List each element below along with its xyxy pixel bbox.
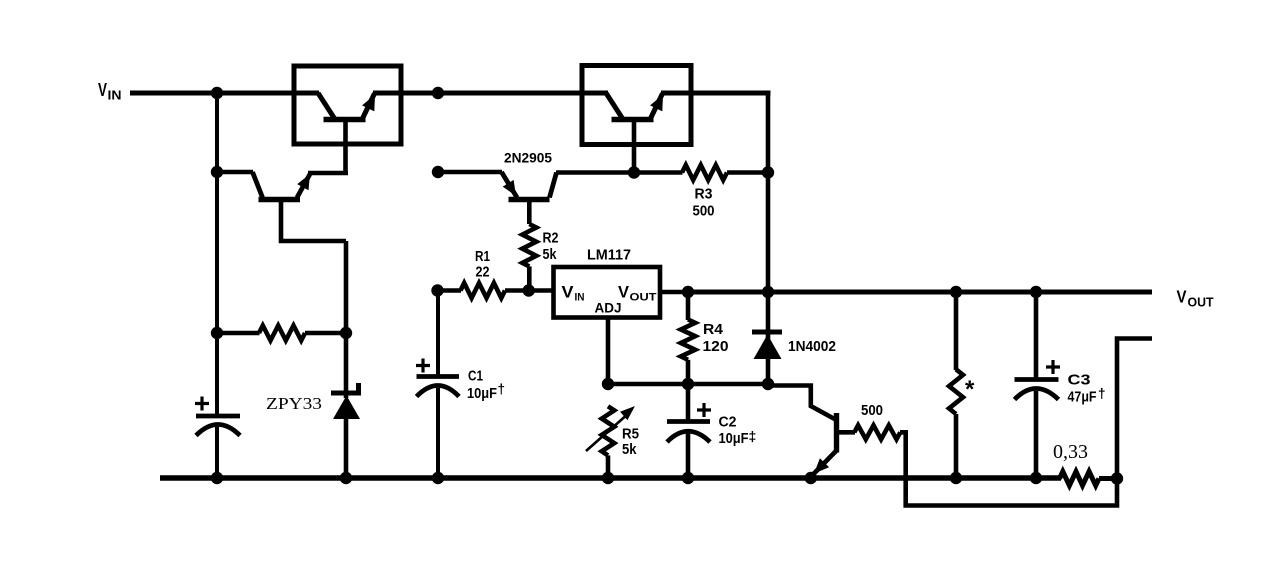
capacitor C2 plus sign bbox=[697, 403, 711, 417]
node junction rail x=346 bbox=[340, 472, 352, 484]
resistor (unlabeled, left) zigzag bbox=[259, 326, 305, 341]
svg-text:ZPY33: ZPY33 bbox=[266, 394, 322, 413]
node junction rail x=217 bbox=[211, 472, 223, 484]
node junction rail x=438 bbox=[432, 472, 444, 484]
wire U1 ADJ pin down bbox=[606, 317, 611, 384]
resistor R5 wiper arrowhead bbox=[620, 406, 635, 420]
wire zener bottom lead bbox=[344, 419, 349, 478]
transistor Q2 collector slant bbox=[606, 93, 623, 119]
svg-text:R5: R5 bbox=[622, 427, 639, 443]
capacitor input top plate bbox=[196, 414, 240, 419]
node junction x=217 zener row bbox=[211, 327, 223, 339]
transistor Q3 emitter arrow bbox=[297, 174, 310, 190]
zener D2 triangle bbox=[333, 396, 360, 420]
wire C3 top lead bbox=[1034, 292, 1039, 379]
transistor Q1 emitter arrow bbox=[362, 95, 375, 112]
node junction rail x=688 bbox=[682, 472, 694, 484]
transistor Q4 body bar bbox=[509, 197, 550, 202]
svg-text:OUT: OUT bbox=[1188, 296, 1214, 310]
svg-text:R4: R4 bbox=[703, 322, 723, 338]
node junction VIN/left branch bbox=[211, 87, 223, 99]
wire Q3 emitter to Q1 base (y=173) bbox=[308, 171, 348, 176]
svg-text:5k: 5k bbox=[622, 442, 637, 458]
svg-text:10μF: 10μF bbox=[719, 431, 749, 447]
wire input cap bottom lead bbox=[215, 427, 219, 478]
node junction R3 / x=768 vertical bbox=[762, 166, 774, 178]
wire * top lead bbox=[954, 292, 959, 370]
svg-text:R3: R3 bbox=[695, 187, 713, 203]
svg-text:1N4002: 1N4002 bbox=[788, 339, 836, 355]
capacitor input curved plate bbox=[196, 425, 240, 436]
wire x=346 down to zener bbox=[344, 241, 349, 398]
svg-text:C2: C2 bbox=[719, 415, 737, 431]
wire * bottom lead bbox=[954, 414, 959, 478]
wire R2 to R1 row bbox=[527, 266, 532, 291]
zener D2 cathode bar with hook bbox=[331, 383, 359, 393]
resistor R4 zigzag bbox=[681, 319, 695, 359]
transistor Q4 collector slant bbox=[550, 173, 557, 198]
transistor Q2 emitter slant bbox=[651, 94, 663, 119]
wire left resistor lead bbox=[217, 331, 260, 336]
svg-text:47μF: 47μF bbox=[1068, 390, 1097, 406]
wire Q4 emitter input bbox=[438, 170, 502, 175]
wire input cap top lead bbox=[215, 333, 219, 416]
transistor Q3 body bar bbox=[259, 197, 301, 202]
wire 500 to bottom jog bbox=[900, 432, 1117, 505]
transistor Q2 boundary box bbox=[582, 66, 691, 145]
wire ADJ row y=384 bbox=[608, 382, 768, 387]
node junction ADJ row x=608 bbox=[602, 378, 614, 390]
svg-text:OUT: OUT bbox=[630, 292, 657, 304]
node junction rail x=1036 bbox=[1030, 472, 1042, 484]
svg-text:V: V bbox=[562, 284, 574, 302]
wire C3 bottom lead bbox=[1034, 391, 1039, 478]
node junction x=438 R1 row bbox=[431, 284, 443, 296]
wire sense stub to right edge bbox=[1117, 339, 1152, 479]
resistor R3 zigzag bbox=[682, 165, 727, 180]
wire C2 top lead bbox=[686, 384, 691, 421]
wire right vertical x=768 (top corner down to ADJ row) bbox=[766, 91, 771, 385]
diode D1 triangle bbox=[754, 335, 782, 360]
resistor R5 wiper arrow line bbox=[586, 413, 629, 451]
transistor Q1 emitter slant bbox=[363, 94, 375, 119]
svg-text:500: 500 bbox=[693, 204, 715, 220]
capacitor C2 top plate bbox=[667, 419, 710, 424]
wire R4 top lead bbox=[686, 292, 691, 320]
wire R5 bottom lead bbox=[606, 455, 611, 478]
transistor Q5 emitter slant bbox=[813, 451, 837, 475]
node junction R2/R1 row bbox=[523, 284, 535, 296]
node junction x=346 zener row bbox=[340, 327, 352, 339]
svg-text:LM117: LM117 bbox=[587, 247, 631, 264]
svg-text:120: 120 bbox=[703, 339, 729, 355]
svg-text:R2: R2 bbox=[543, 231, 559, 247]
svg-text:†: † bbox=[498, 382, 506, 397]
wire left resistor right lead bbox=[305, 331, 346, 336]
wire R4 bottom lead bbox=[686, 360, 691, 384]
wire U1 VOUT pin to output row bbox=[660, 290, 689, 295]
resistor R1 zigzag bbox=[461, 283, 506, 298]
wire rail right of 0,33 bbox=[1099, 476, 1117, 481]
svg-text:IN: IN bbox=[108, 89, 122, 103]
node junction ADJ row x=688 bbox=[682, 378, 694, 390]
svg-text:10μF: 10μF bbox=[467, 386, 497, 402]
node junction rail x=1117 bbox=[1111, 472, 1123, 484]
svg-text:C3: C3 bbox=[1068, 372, 1091, 389]
wire Q3 collector lead down then right bbox=[281, 200, 346, 242]
resistor R2 zigzag bbox=[522, 224, 536, 266]
wire Q5 collector from ADJ row bbox=[768, 386, 836, 420]
svg-text:IN: IN bbox=[575, 292, 585, 304]
node junction x=217 Q3 base row bbox=[211, 166, 223, 178]
transistor Q2 base bar bbox=[612, 117, 654, 122]
transistor Q4 emitter arrow (PNP, pointing in) bbox=[503, 180, 516, 196]
regulator U1 LM117 box bbox=[554, 267, 661, 318]
node junction ADJ row x=768 bbox=[762, 378, 774, 390]
wire R1 left lead bbox=[438, 288, 462, 293]
transistor Q1 boundary box bbox=[294, 66, 401, 144]
wire R3 left lead bbox=[634, 170, 683, 175]
wire VIN input (top rail y=93) bbox=[130, 91, 319, 96]
wire Q3 base input bbox=[217, 170, 253, 175]
transistor Q3 emitter slant bbox=[297, 174, 310, 198]
capacitor C1 curved plate bbox=[417, 386, 460, 397]
resistor * zigzag bbox=[949, 369, 963, 414]
resistor 0,33 zigzag bbox=[1060, 472, 1100, 486]
wire Q2 base lead down x=634 bbox=[632, 120, 637, 173]
wire C1 top lead bbox=[436, 291, 440, 377]
node junction rail x=956 bbox=[950, 472, 962, 484]
transistor Q4 emitter slant bbox=[502, 172, 518, 198]
node junction rail x=810 bbox=[805, 472, 817, 484]
wire R3 right lead bbox=[727, 170, 768, 175]
capacitor C3 top plate bbox=[1015, 377, 1059, 382]
wire ground rail bbox=[160, 475, 1061, 480]
wire left vertical x=217 (VIN branch down) bbox=[215, 93, 219, 415]
resistor 500 zigzag bbox=[854, 425, 900, 439]
node junction top rail at x=438 bbox=[432, 87, 444, 99]
node junction rail x=608 bbox=[602, 472, 614, 484]
capacitor C3 curved plate bbox=[1015, 389, 1059, 400]
wire Q1 base lead down x=346 bbox=[343, 120, 348, 176]
transistor Q2 emitter arrow bbox=[650, 95, 663, 112]
svg-text:0,33: 0,33 bbox=[1053, 441, 1088, 463]
svg-text:C1: C1 bbox=[468, 369, 483, 385]
svg-text:5k: 5k bbox=[543, 247, 558, 263]
wire top rail between Q1 and Q2 bbox=[373, 91, 608, 96]
svg-text:†: † bbox=[1098, 386, 1106, 401]
svg-text:‡: ‡ bbox=[749, 428, 757, 444]
diode D1 cathode bar bbox=[752, 330, 782, 335]
node junction x=438 Q4 emitter row bbox=[432, 166, 444, 178]
svg-text:V: V bbox=[98, 80, 107, 100]
capacitor C2 curved plate bbox=[667, 431, 710, 442]
svg-text:V: V bbox=[1177, 287, 1187, 307]
transistor Q3 base slant bbox=[253, 172, 263, 198]
resistor R5 zigzag bbox=[602, 406, 615, 455]
svg-text:ADJ: ADJ bbox=[595, 300, 622, 316]
transistor Q5 base bar bbox=[834, 413, 839, 453]
transistor Q1 collector slant bbox=[318, 93, 335, 119]
wire Q4 base lead down to R2 bbox=[527, 200, 532, 225]
capacitor C1 plus sign bbox=[416, 359, 430, 373]
svg-text:2N2905: 2N2905 bbox=[504, 151, 552, 166]
node junction VOUT row x=956 bbox=[950, 286, 962, 298]
capacitor C3 plus sign bbox=[1046, 360, 1060, 374]
wire Q5 base lead bbox=[837, 430, 856, 435]
wire VOUT row y=292 bbox=[688, 290, 1152, 295]
capacitor C1 top plate bbox=[417, 374, 460, 379]
wire Q4 collector to R3 node bbox=[556, 170, 634, 175]
node junction VOUT row x=688 bbox=[682, 286, 694, 298]
transistor Q5 emitter arrow bbox=[814, 458, 829, 473]
wire C1 bottom lead bbox=[436, 388, 440, 478]
capacitor (input, unlabeled) plus sign bbox=[195, 397, 209, 411]
node junction Q2 base / 2N2905 collector / R3 bbox=[628, 166, 640, 178]
node junction VOUT row x=1036 bbox=[1030, 286, 1042, 298]
node junction VOUT row x=768 bbox=[762, 286, 774, 298]
svg-text:R1: R1 bbox=[475, 249, 490, 265]
wire top rail Q2 to right corner bbox=[661, 91, 771, 96]
wire R1 right lead to LM117 bbox=[505, 288, 555, 293]
wire C2 bottom lead bbox=[686, 433, 691, 478]
svg-text:22: 22 bbox=[476, 265, 490, 281]
svg-text:500: 500 bbox=[861, 403, 883, 419]
transistor Q1 base bar bbox=[324, 117, 366, 122]
svg-text:*: * bbox=[965, 376, 975, 403]
